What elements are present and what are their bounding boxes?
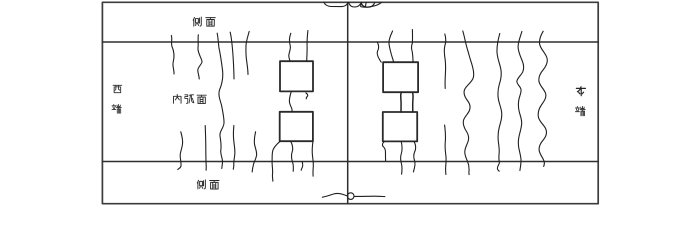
crack L14 flick below upper-left box: [306, 93, 308, 99]
crack R1 divider to upper-right box corner: [377, 42, 381, 62]
crack L9: [233, 126, 235, 170]
bottom squiggle loop: [347, 193, 354, 200]
crack L10: [252, 132, 256, 172]
top scribble bowl 3: [361, 3, 375, 8]
crack R7 below lower-right box: [401, 142, 402, 175]
crack R8 below lower-right box: [413, 142, 415, 172]
crack L11 divider to upper-left box: [289, 33, 291, 61]
crack R3 into upper-right box: [412, 30, 414, 63]
crack L18 short below divider: [301, 162, 303, 171]
label 西 (west): [113, 85, 122, 92]
top scribble bowl 2: [349, 3, 362, 7]
crack L13 between left boxes: [289, 92, 292, 112]
label 东 (east): [576, 87, 585, 96]
top scribble tick 1: [360, 2, 363, 6]
crack L7: [205, 126, 206, 171]
anchor box lower-left: [280, 112, 313, 141]
crack L3 long: [217, 33, 224, 168]
top scribble wide arc: [362, 2, 382, 7]
crack L5: [246, 31, 249, 74]
anchor box upper-right: [383, 62, 418, 92]
crack R10 wavy: [463, 31, 474, 175]
label 侧面 (bottom side face): [197, 180, 219, 189]
crack L1: [171, 36, 174, 75]
crack R5 between right boxes right: [412, 92, 415, 112]
label 端 (end, west): [112, 104, 121, 113]
anchor box upper-left: [280, 61, 313, 91]
crack R11: [497, 34, 502, 172]
bottom squiggle right tail: [354, 195, 385, 197]
crack R6 below lower-right box hook: [382, 142, 385, 161]
crack L4: [230, 32, 234, 79]
crack R9b: [445, 125, 446, 175]
crack L15 below lower-left box: [272, 141, 280, 181]
label 端 (end, east): [575, 106, 585, 115]
top scribble bowl 1: [324, 2, 348, 6]
crack L2: [198, 35, 202, 79]
crack L16 below lower-left box: [291, 141, 294, 171]
crack R13 strong wavy: [538, 31, 547, 166]
top divider line: [102, 41, 598, 43]
outer frame: [102, 2, 598, 203]
crack L6: [178, 132, 183, 170]
crack L12 divider to upper-left box: [307, 31, 308, 62]
crack R12: [517, 32, 524, 171]
crack L17 below lower-left box: [312, 141, 313, 176]
label 内弧面 (inner arc face): [173, 94, 206, 103]
center vertical line: [347, 2, 349, 204]
crack R9a: [444, 34, 446, 89]
anchor box lower-right: [383, 112, 417, 141]
top scribble tick 2: [364, 2, 367, 7]
crack R4 between right boxes left: [400, 92, 403, 112]
label 侧面 (top side face): [193, 17, 215, 26]
bottom divider line: [102, 161, 598, 163]
bottom squiggle left tail: [322, 194, 347, 198]
crack R2 into upper-right box: [389, 31, 394, 62]
